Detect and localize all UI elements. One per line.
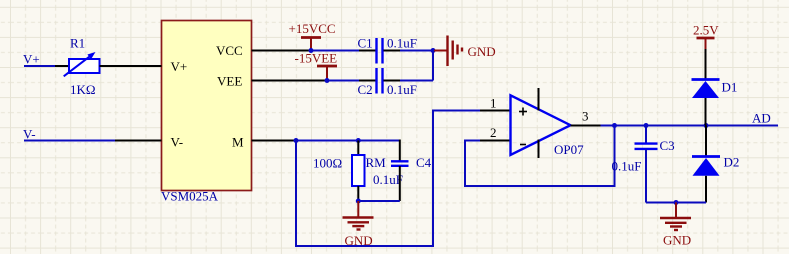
wire xyxy=(400,50,433,52)
svg-text:GND: GND xyxy=(468,44,496,59)
svg-text:2.5V: 2.5V xyxy=(693,23,719,38)
resistor R1 xyxy=(55,52,131,76)
svg-text:OP07: OP07 xyxy=(554,142,584,157)
svg-text:D2: D2 xyxy=(724,155,740,170)
svg-text:RM: RM xyxy=(366,155,387,170)
svg-text:C3: C3 xyxy=(660,138,675,153)
svg-text:V-: V- xyxy=(23,127,36,142)
earth ground xyxy=(343,201,374,230)
node junction xyxy=(704,123,709,128)
wire xyxy=(432,111,434,248)
capacitor C3 xyxy=(635,126,658,203)
IC VSM025A xyxy=(115,21,327,191)
wire xyxy=(24,65,55,67)
wire xyxy=(646,202,706,204)
svg-text:1KΩ: 1KΩ xyxy=(70,82,96,97)
op-amp OP07 xyxy=(480,88,601,158)
node junction xyxy=(431,48,436,53)
svg-text:0.1uF: 0.1uF xyxy=(387,82,417,97)
svg-text:VCC: VCC xyxy=(216,43,243,58)
node junction M xyxy=(294,138,299,143)
capacitor C4 xyxy=(391,140,409,202)
svg-text:0.1uF: 0.1uF xyxy=(373,172,403,187)
wire xyxy=(311,50,359,52)
svg-text:0.1uF: 0.1uF xyxy=(612,159,642,174)
svg-text:V-: V- xyxy=(171,135,184,150)
capacitor C1 xyxy=(359,38,400,64)
wire xyxy=(24,140,115,142)
wire xyxy=(601,125,779,127)
wire xyxy=(358,200,400,202)
svg-text:-15VEE: -15VEE xyxy=(295,51,338,66)
svg-text:C4: C4 xyxy=(416,155,432,170)
svg-text:C1: C1 xyxy=(358,36,373,51)
svg-text:V+: V+ xyxy=(23,52,40,67)
wire xyxy=(295,245,433,247)
diode D2 xyxy=(692,126,720,203)
power 2.5V xyxy=(693,23,719,50)
capacitor C2 xyxy=(359,68,400,94)
node junction xyxy=(674,200,679,205)
wire xyxy=(464,140,466,187)
svg-text:VEE: VEE xyxy=(217,74,242,89)
svg-text:V+: V+ xyxy=(171,59,188,74)
svg-text:GND: GND xyxy=(663,233,691,248)
diode D1 xyxy=(692,49,720,126)
node junction xyxy=(356,138,361,143)
power -15VEE xyxy=(295,51,338,81)
wire xyxy=(432,50,434,81)
wire xyxy=(614,126,616,188)
power ground GND xyxy=(433,36,496,67)
wire xyxy=(464,185,615,187)
node junction xyxy=(309,48,314,53)
node junction xyxy=(612,123,617,128)
svg-text:2: 2 xyxy=(490,125,497,140)
svg-text:0.1uF: 0.1uF xyxy=(387,36,417,51)
wire xyxy=(327,80,359,82)
wire xyxy=(296,140,400,142)
node junction xyxy=(325,78,330,83)
svg-text:M: M xyxy=(232,135,244,150)
svg-text:D1: D1 xyxy=(722,80,738,95)
svg-text:+15VCC: +15VCC xyxy=(289,21,336,36)
wire xyxy=(465,140,480,142)
svg-text:3: 3 xyxy=(582,109,589,124)
svg-text:R1: R1 xyxy=(70,36,85,51)
svg-text:100Ω: 100Ω xyxy=(313,156,342,171)
wire xyxy=(432,110,480,112)
svg-text:VSM025A: VSM025A xyxy=(161,189,219,204)
resistor RM xyxy=(352,141,365,202)
wire xyxy=(400,80,433,82)
power +15VCC xyxy=(289,21,336,51)
svg-text:AD: AD xyxy=(752,111,771,126)
node junction xyxy=(356,199,361,204)
earth ground xyxy=(660,203,691,231)
svg-text:C2: C2 xyxy=(358,82,373,97)
svg-text:1: 1 xyxy=(490,96,497,111)
node junction xyxy=(644,123,649,128)
wire xyxy=(295,140,297,247)
